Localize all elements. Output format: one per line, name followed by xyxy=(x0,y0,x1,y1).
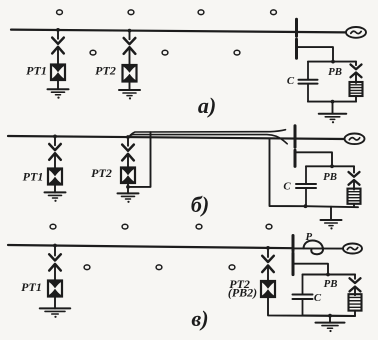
node: rail tap of РТ1 (в) xyxy=(53,244,57,248)
svg-text:С: С xyxy=(287,75,295,87)
svg-text:в): в) xyxy=(191,306,208,331)
node: bottom bus junction (в) xyxy=(328,314,332,318)
AC source generator (б) xyxy=(345,134,365,145)
insulated rail joint (б): two thick bars xyxy=(294,126,297,167)
capacitor C (б) xyxy=(296,166,316,206)
wire: bottom bus to ground (a) xyxy=(332,102,334,114)
ground at feed end (б) xyxy=(321,220,342,229)
svg-text:РТ1: РТ1 xyxy=(21,280,42,294)
relay РВ (a): hatched coil box xyxy=(350,82,363,96)
wire: feed from joint to resonator (б) xyxy=(296,152,332,166)
ground at feed end (в) xyxy=(316,323,345,333)
arrester spark-gap arrows above РТ1 (a) xyxy=(52,30,64,54)
svg-text:б): б) xyxy=(191,192,209,217)
wire: bottom bus to ground (б) xyxy=(330,207,332,220)
wire: РТ1 to ground (a) xyxy=(57,80,59,89)
insulated rail joint (в): thick bars xyxy=(292,236,295,275)
arrester spark-gap arrows above РВ (б) xyxy=(349,166,360,185)
AC source generator (в) xyxy=(343,244,362,254)
wire: РТ2 bottom to feed bottom bus (в) xyxy=(268,297,355,316)
wire: top bus of C/РВ loop (в) xyxy=(303,274,356,276)
node: bottom bus junction (a) xyxy=(331,100,335,104)
ground under РТ1 (б) xyxy=(45,192,66,202)
arrester spark-gap arrows above РТ1 (б) xyxy=(49,136,61,159)
arrester spark-gap arrows above РТ1 (в) xyxy=(49,246,61,271)
node: rail tap of РТ2 (a) xyxy=(128,29,132,33)
wire: bottom bus of C/РВ loop (б) xyxy=(306,206,358,207)
svg-text:РВ: РВ xyxy=(324,278,338,290)
ground under РТ1 (a) xyxy=(48,89,69,99)
node: rail tap of РТ1 (б) xyxy=(53,135,57,139)
arrester spark-gap arrows above РТ2 (в) xyxy=(262,248,274,272)
wire: shaft into relay РТ2 (в) xyxy=(267,267,269,282)
svg-text:РВ: РВ xyxy=(323,171,337,183)
pole markers row below rail (a) xyxy=(90,50,240,55)
wire: РТ1 to ground (б) xyxy=(54,185,56,193)
bypass cable: double line above rail (б) xyxy=(129,130,287,144)
svg-text:С: С xyxy=(283,181,291,193)
relay РВ (б): hatched coil box xyxy=(348,189,361,204)
wire: feed from joint to resonator (a) xyxy=(298,47,333,62)
ground under РТ2 (a) xyxy=(119,90,140,100)
wire: shaft into relay РТ1 (a) xyxy=(57,48,59,65)
node: bottom bus junction left (б) xyxy=(304,204,308,208)
node: rail tap of РТ2 (б) xyxy=(126,135,130,139)
wire: shaft into РВ coil (б) xyxy=(353,182,355,190)
wire: top bus of C/РВ loop (б) xyxy=(306,165,354,167)
pole markers row above rail (a) xyxy=(57,10,277,15)
inductive loop / fuse П on feed line (в) xyxy=(295,247,344,249)
svg-text:РТ2: РТ2 xyxy=(95,64,116,78)
relay РТ1 (в): box with facing arrowheads xyxy=(48,281,62,297)
node: top bus junction (б) xyxy=(330,164,334,168)
node: rail tap of РТ1 (a) xyxy=(56,28,60,32)
svg-text:(РВ2): (РВ2) xyxy=(228,286,257,300)
wire: bottom bus to ground (в) xyxy=(329,316,331,323)
svg-text:а): а) xyxy=(198,93,216,118)
capacitor C (a) xyxy=(299,62,318,102)
wire: РТ2 to ground (a) xyxy=(129,82,131,91)
node: bypass return junction below РТ2 (б) xyxy=(126,185,130,189)
svg-text:РТ1: РТ1 xyxy=(23,169,44,183)
relay РТ2 (в): box with facing arrowheads xyxy=(261,281,275,297)
svg-text:С: С xyxy=(314,292,322,304)
wire: rail line (в) xyxy=(8,245,293,248)
wire: shaft into relay РТ2 (a) xyxy=(129,49,131,66)
relay РТ2 (a): box with facing arrowheads xyxy=(123,65,137,82)
svg-text:РТ1: РТ1 xyxy=(26,64,47,78)
ground at feed end (a) xyxy=(319,114,347,123)
svg-text:РТ2: РТ2 xyxy=(91,166,112,180)
relay РТ1 (a): box with facing arrowheads xyxy=(51,65,65,81)
insulated rail joint (a): two thick bars xyxy=(295,19,298,58)
node: top bus junction (в) xyxy=(326,273,330,277)
svg-text:РВ: РВ xyxy=(328,66,342,78)
capacitor C (в) xyxy=(293,275,313,316)
wire: shaft into РВ coil (a) xyxy=(355,74,357,83)
wire: РТ2 to ground (б) xyxy=(127,183,129,193)
relay РВ (в): hatched coil box xyxy=(349,294,362,310)
wire: shaft into relay РТ1 (б) xyxy=(54,155,56,170)
arrester spark-gap arrows above РТ2 (a) xyxy=(124,31,136,54)
wire: shaft into relay РТ2 (б) xyxy=(127,155,129,168)
arrester spark-gap arrows above РВ (a) xyxy=(351,62,362,78)
wire: shaft into РВ coil (в) xyxy=(354,288,356,295)
wire: РТ1 to ground (в) xyxy=(54,297,56,309)
wire: РВ coil to bottom bus (a) xyxy=(355,96,357,102)
relay РТ2 (б): box with facing arrowheads xyxy=(121,168,135,184)
arrester spark-gap arrows above РВ (в) xyxy=(350,275,361,292)
arrester spark-gap arrows above РТ2 (б) xyxy=(122,137,134,160)
node: rail tap of РТ2 (в) xyxy=(266,246,270,250)
wire: bottom bus of C/РВ loop (a) xyxy=(308,101,356,103)
wire: rail line (б) xyxy=(8,136,345,139)
relay РТ1 (б): box with facing arrowheads xyxy=(48,169,62,185)
wire: feed from joint to resonator (в) xyxy=(294,264,328,275)
ground under РТ1 (в) xyxy=(40,308,71,318)
wire: bypass drop to РТ2 bottom node (б) xyxy=(129,132,151,187)
node: top bus junction (a) xyxy=(331,60,335,64)
wire: bottom bus of C/РВ loop (в) xyxy=(303,315,356,317)
wire: bypass drop to feed bottom bus (б) xyxy=(270,139,307,206)
wire: РВ coil to bottom bus (в) xyxy=(354,311,356,316)
wire: РВ coil to bottom bus (б) xyxy=(353,204,355,207)
wire: rail line (a) xyxy=(11,30,346,33)
ground under РТ2 (б) xyxy=(118,193,139,203)
pole markers row below rail (в) xyxy=(84,265,235,270)
wire: shaft into relay РТ1 (в) xyxy=(54,266,56,282)
AC source generator (a) xyxy=(346,27,366,38)
pole markers row above rail (в) xyxy=(50,224,272,229)
wire: top bus of C/РВ loop (a) xyxy=(308,61,356,63)
